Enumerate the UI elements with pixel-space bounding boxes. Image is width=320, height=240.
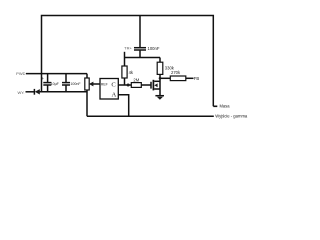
svg-text:C: C bbox=[111, 81, 116, 88]
svg-text:100nF: 100nF bbox=[148, 46, 160, 51]
svg-text:+: + bbox=[42, 76, 45, 81]
svg-text:10µF: 10µF bbox=[51, 82, 60, 86]
svg-text:2M: 2M bbox=[133, 78, 139, 83]
svg-text:A: A bbox=[112, 91, 117, 98]
svg-text:REF: REF bbox=[101, 82, 108, 86]
svg-text:Wyjście - gamma: Wyjście - gamma bbox=[215, 114, 248, 119]
svg-text:100nF: 100nF bbox=[70, 82, 81, 86]
svg-text:Masa: Masa bbox=[220, 103, 231, 108]
svg-text:FB: FB bbox=[194, 76, 200, 81]
svg-text:WY.: WY. bbox=[17, 90, 24, 95]
svg-text:TR+: TR+ bbox=[124, 46, 132, 51]
svg-text:PWD: PWD bbox=[16, 71, 25, 76]
svg-text:270k: 270k bbox=[171, 70, 181, 75]
